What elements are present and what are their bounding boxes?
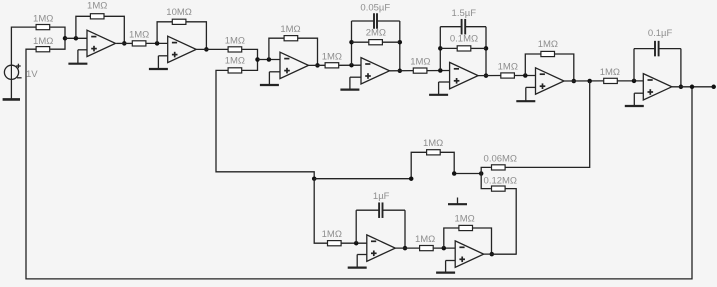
- resistor R12 0.1M&#937; feedback U5: [457, 46, 471, 51]
- wire: U6 output to R15: [564, 80, 603, 82]
- label R20 1M&#937;: [415, 234, 435, 245]
- node: U7 output feedback junction: [679, 85, 684, 90]
- svg-text:1MΩ: 1MΩ: [423, 138, 443, 149]
- label C4 1&#181;F: [373, 191, 390, 202]
- resistor R10 2M&#937; feedback U4: [369, 40, 383, 45]
- node: U3 summing junction: [255, 57, 260, 62]
- resistor R20 1M&#937;: [420, 246, 434, 251]
- wire: global feedback left/bottom: [26, 49, 692, 279]
- wire: R19 to U8 inverting input: [342, 242, 367, 244]
- wire: R9 to U4 inverting input: [339, 64, 361, 66]
- wire: U3 feedback loop: [269, 38, 318, 65]
- node: U4 feedback resistor left: [349, 40, 354, 45]
- svg-text:1MΩ: 1MΩ: [498, 62, 518, 73]
- label R14 1M&#937;: [538, 39, 558, 50]
- ground for U1: [68, 50, 87, 64]
- label R16 1M&#937;: [423, 138, 443, 149]
- op-amp U1: [87, 30, 116, 56]
- svg-text:0.05µF: 0.05µF: [360, 3, 390, 14]
- node: U4 output: [398, 69, 403, 74]
- op-amp U9: [455, 241, 484, 267]
- resistor R8 1M&#937; feedback U3: [284, 36, 298, 41]
- wire: R11 to U5 inverting input: [427, 70, 449, 72]
- svg-text:1MΩ: 1MΩ: [322, 51, 342, 62]
- wire: U4 feedback left leg: [351, 21, 353, 65]
- resistor R13 1M&#937;: [501, 73, 515, 78]
- label R4 1M&#937;: [129, 29, 149, 40]
- ground for U5: [429, 82, 450, 95]
- wire: U4 feedback resistor arms: [352, 41, 400, 43]
- svg-text:1V: 1V: [26, 69, 38, 80]
- wire: U2 output to R6: [196, 48, 229, 50]
- ground floating near U9: [448, 198, 467, 205]
- wire: R16 to node B: [441, 152, 482, 173]
- svg-text:0.1µF: 0.1µF: [648, 28, 673, 39]
- resistor R14 1M&#937; feedback U6: [541, 51, 555, 56]
- node: U5 output: [484, 73, 489, 78]
- resistor R21 1M&#937; feedback U9: [459, 225, 473, 230]
- label R7 1M&#937;: [225, 55, 245, 66]
- wire: node A down to R19: [314, 179, 327, 244]
- ground for U8: [348, 255, 367, 268]
- label R3 1M&#937;: [87, 1, 107, 12]
- node: U2 output: [204, 47, 209, 52]
- resistor R15 1M&#937;: [604, 78, 618, 83]
- wire: U8 feedback legs: [356, 210, 405, 248]
- wire: U3 output to R9: [309, 64, 326, 66]
- label R17 0.06M&#937;: [484, 153, 518, 164]
- ground for U9: [436, 261, 455, 273]
- label R19 1M&#937;: [322, 229, 342, 240]
- svg-text:1MΩ: 1MΩ: [538, 39, 558, 50]
- wire: node A to R16: [314, 152, 426, 178]
- wire: U1 feedback loop: [76, 16, 124, 43]
- svg-text:1MΩ: 1MΩ: [322, 229, 342, 240]
- wire: R18 to U9 output: [492, 189, 516, 255]
- svg-text:1MΩ: 1MΩ: [225, 35, 245, 46]
- svg-text:0.1MΩ: 0.1MΩ: [450, 34, 478, 45]
- label R6 1M&#937;: [225, 35, 245, 46]
- node: U6 output: [572, 79, 577, 84]
- label 1V: [26, 69, 38, 80]
- op-amp U4: [361, 58, 390, 84]
- node: output terminal: [711, 85, 716, 90]
- node: U9 output: [490, 252, 495, 257]
- resistor R7 1M&#937;: [228, 68, 242, 73]
- wire: U5 feedback right leg: [485, 27, 487, 76]
- label R21 1M&#937;: [454, 213, 474, 224]
- wire: R4 to U2 inverting input: [146, 42, 167, 44]
- wire: node B to R17: [481, 167, 491, 173]
- label R8 1M&#937;: [280, 24, 300, 35]
- label C1 0.05&#181;F: [360, 3, 390, 14]
- node: node B junction: [479, 171, 484, 176]
- svg-text:1MΩ: 1MΩ: [410, 57, 430, 68]
- resistor R17 0.06M&#937;: [492, 165, 506, 170]
- node: branch to R17 network: [587, 79, 592, 84]
- op-amp U7: [643, 74, 672, 100]
- node: U5 feedback resistor right: [484, 46, 489, 51]
- node: U4 inverting input: [349, 63, 354, 68]
- svg-text:1MΩ: 1MΩ: [225, 55, 245, 66]
- node: U5 inverting input: [438, 68, 443, 73]
- svg-text:1MΩ: 1MΩ: [600, 67, 620, 78]
- wire: R13 to U6 inverting input: [515, 75, 536, 77]
- svg-text:10MΩ: 10MΩ: [166, 7, 192, 18]
- wire: U8 output to R20: [395, 247, 419, 249]
- resistor R3 1M&#937; feedback U1: [90, 14, 104, 19]
- capacitor C2 1.5&#181;F feedback U5: [440, 19, 486, 35]
- resistor R6 1M&#937;: [228, 47, 242, 52]
- resistor R11 1M&#937;: [413, 68, 427, 73]
- wire: U4 feedback right leg: [399, 21, 401, 71]
- capacitor C4 1&#181;F feedback U8: [356, 202, 405, 218]
- node: corner at R16 right: [452, 171, 457, 176]
- svg-text:1MΩ: 1MΩ: [454, 213, 474, 224]
- wire: U1 inverting input: [65, 37, 87, 39]
- wire: U7 feedback loop: [634, 49, 681, 87]
- voltage source V1 1V: [4, 64, 21, 80]
- label R15 1M&#937;: [600, 67, 620, 78]
- label R12 0.1M&#937;: [450, 34, 478, 45]
- node: U1 feedback tap: [74, 36, 79, 41]
- wire: U9 feedback loop: [444, 228, 492, 254]
- svg-text:1MΩ: 1MΩ: [129, 29, 149, 40]
- wire: R2 to inverting node: [50, 38, 65, 49]
- wire: U2 feedback loop: [157, 22, 206, 50]
- wire: R1 to inverting node: [50, 27, 65, 38]
- wire: U3 inverting input: [258, 59, 281, 61]
- svg-text:1µF: 1µF: [373, 191, 390, 202]
- ground for U2: [149, 56, 168, 69]
- node: U1 summing junction: [63, 36, 68, 41]
- ground for U6: [516, 87, 535, 101]
- node: U5 feedback resistor left: [438, 46, 443, 51]
- node: U3 feedback tap: [267, 57, 272, 62]
- ground for U4: [340, 77, 361, 89]
- node: U1 output: [122, 41, 127, 46]
- resistor R19 1M&#937;: [328, 241, 342, 246]
- capacitor C3 0.1&#181;F feedback U7: [634, 41, 681, 57]
- label R18 0.12M&#937;: [484, 175, 518, 186]
- node: U8 inverting input: [354, 241, 359, 246]
- op-amp U5: [450, 62, 479, 88]
- ground for U7: [625, 93, 644, 106]
- node: U2 inverting input: [155, 41, 160, 46]
- label C3 0.1&#181;F: [648, 28, 673, 39]
- node: U6 inverting input: [523, 73, 528, 78]
- wire: R20 to U9 inverting input: [434, 247, 456, 249]
- wire: node B to R18: [481, 174, 491, 189]
- label R13 1M&#937;: [498, 62, 518, 73]
- wire: U1 output to R4: [116, 42, 132, 44]
- svg-text:2MΩ: 2MΩ: [366, 27, 386, 38]
- svg-text:0.06MΩ: 0.06MΩ: [484, 153, 518, 164]
- node: node A junction: [312, 176, 317, 181]
- resistor R5 10M&#937; feedback U2: [172, 19, 186, 24]
- label R11 1M&#937;: [410, 57, 430, 68]
- svg-text:1MΩ: 1MΩ: [415, 234, 435, 245]
- wire: U6 feedback loop: [525, 54, 574, 81]
- resistor R16 1M&#937;: [427, 150, 441, 155]
- wire: node A to R7: [216, 70, 314, 178]
- ground for source V1: [3, 98, 20, 101]
- wire: U7 output: [672, 86, 714, 88]
- resistor R18 0.12M&#937;: [492, 186, 506, 191]
- label R5 10M&#937;: [166, 7, 192, 18]
- resistor R4 1M&#937;: [132, 41, 146, 46]
- label R2 1M&#937;: [33, 36, 53, 47]
- capacitor C1 0.05&#181;F feedback U4: [352, 13, 400, 29]
- ground for U3: [260, 72, 280, 85]
- svg-text:0.12MΩ: 0.12MΩ: [484, 175, 518, 186]
- node: U9 inverting input: [442, 246, 447, 251]
- wire: U4 output to R11: [390, 70, 414, 72]
- resistor R1 1M&#937;: [36, 25, 50, 30]
- wire: R15 to U7 inverting input: [618, 80, 644, 82]
- node: branch to global feedback: [690, 85, 695, 90]
- wire: source to ground: [10, 79, 12, 99]
- label R1 1M&#937;: [33, 14, 53, 25]
- node: U3 output: [315, 63, 320, 68]
- label C2 1.5&#181;F: [452, 8, 477, 19]
- node: U7 inverting input: [632, 79, 637, 84]
- svg-text:1.5µF: 1.5µF: [452, 8, 477, 19]
- node: corner at R16 left: [409, 176, 414, 181]
- resistor R9 1M&#937;: [325, 63, 339, 68]
- wire: U5 feedback resistor arms: [440, 47, 486, 49]
- svg-text:1MΩ: 1MΩ: [280, 24, 300, 35]
- resistor R2 1M&#937;: [36, 47, 50, 52]
- svg-text:1MΩ: 1MΩ: [33, 36, 53, 47]
- op-amp U6: [536, 68, 565, 94]
- op-amp U2: [168, 36, 197, 62]
- op-amp U8: [367, 235, 396, 261]
- wire: source top to R1: [11, 27, 36, 65]
- wire: U9 output: [484, 253, 517, 255]
- wire: R6 to U3 summing node: [242, 49, 257, 59]
- wire: R7 to U3 summing node: [242, 60, 257, 71]
- svg-text:1MΩ: 1MΩ: [87, 1, 107, 12]
- svg-text:1MΩ: 1MΩ: [33, 14, 53, 25]
- wire: U5 output to R13: [478, 75, 500, 77]
- op-amp U3: [280, 52, 309, 78]
- wire: U5 feedback left leg: [439, 27, 441, 71]
- label R10 2M&#937;: [366, 27, 386, 38]
- wire: R17 to U6 output branch: [505, 81, 590, 167]
- label R9 1M&#937;: [322, 51, 342, 62]
- node: U4 feedback resistor right: [398, 40, 403, 45]
- node: U8 output: [403, 246, 408, 251]
